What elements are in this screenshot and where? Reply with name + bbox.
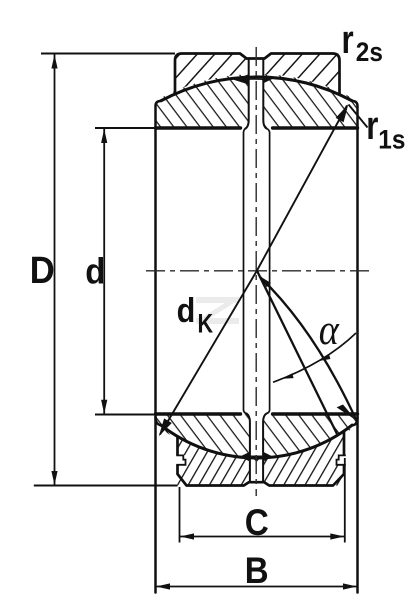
svg-text:d: d (177, 291, 196, 329)
watermark logo (faint) (196, 297, 239, 324)
d arrow up (101, 129, 107, 143)
outer ring, top section hatch (175, 54, 340, 95)
svg-text:r: r (366, 103, 378, 148)
grease groove wedge bottom-left (240, 452, 250, 462)
C dimension line (180, 536, 344, 538)
line B arrow at sphere corner (337, 405, 357, 421)
svg-text:B: B (245, 550, 269, 591)
svg-text:D: D (30, 248, 55, 291)
seal groove notch bottom-left (176, 455, 186, 465)
grease groove wedge bottom-center (251, 456, 263, 463)
svg-text:1s: 1s (378, 126, 405, 155)
bottom face lubrication notch cutout (243, 482, 271, 488)
D arrow up (51, 55, 57, 69)
line B arrow at center (259, 276, 270, 287)
C arrow left (180, 533, 194, 539)
tilt angle line A (257, 271, 338, 436)
svg-text:K: K (198, 309, 214, 339)
lubrication hole walls bottom (247, 414, 267, 482)
sphere surface arc, bottom (161, 425, 352, 458)
d extension line top (95, 127, 156, 129)
seal groove notch bottom-right (336, 455, 346, 465)
lubrication hole top cutout (249, 57, 264, 128)
svg-text:r: r (342, 17, 354, 62)
alpha leader arrow end (283, 373, 294, 379)
vertical centerline (255, 47, 257, 496)
alpha leader arrow mid (320, 354, 331, 361)
top face lubrication notch cutout (240, 52, 271, 59)
lubrication hole bottom cutout (250, 414, 263, 483)
outer ring top outline with notch and r2s corner radii (175, 54, 340, 95)
D extension line top (41, 53, 175, 55)
svg-text:α: α (319, 305, 340, 354)
dK arrow top-right (336, 104, 349, 122)
D dimension line (54, 55, 56, 485)
bore line bottom (156, 412, 358, 415)
inner ring left face line + B extension line left (156, 101, 161, 593)
outer ring, bottom section hatch (178, 431, 345, 486)
B dimension line (156, 586, 357, 588)
tilt angle line B (260, 277, 357, 421)
inner ring bottom r1s corner rounds (156, 417, 358, 425)
alpha leader arc (273, 333, 356, 382)
dK arrow bottom-left (159, 418, 172, 436)
svg-text:2s: 2s (356, 38, 383, 67)
thin arc across bottom hole (246, 457, 266, 459)
dK sphere diameter line (160, 106, 347, 435)
C arrow right (330, 533, 344, 539)
thin arc across top hole (246, 78, 266, 80)
inner ring, bottom section hatch (156, 414, 358, 461)
B arrow right (343, 583, 357, 589)
sphere surface arc, top (161, 77, 352, 101)
D arrow down (51, 471, 57, 485)
grease groove wedge bottom-right (263, 452, 273, 462)
d dimension line (103, 129, 105, 414)
svg-text:d: d (85, 252, 105, 292)
bore lubrication groove lines (244, 129, 270, 414)
outer ring bottom outline with chamfers and notch (178, 431, 345, 486)
inner ring right face line + B extension line right (353, 101, 358, 593)
inner ring, top section hatch (156, 74, 358, 128)
lubrication hole walls top (246, 59, 267, 129)
grease groove wedge top-left (234, 74, 249, 84)
d arrow down (101, 400, 107, 414)
bore line top (156, 126, 358, 129)
C extension line left (179, 487, 181, 543)
grease groove wedge top-right (263, 75, 272, 83)
r1s leader line (349, 105, 368, 128)
C extension line right (344, 458, 346, 543)
d extension line bottom (95, 414, 156, 416)
B arrow left (156, 583, 170, 589)
svg-text:C: C (245, 502, 269, 543)
horizontal centerline (bearing axis) (146, 270, 372, 272)
D extension line bottom (34, 485, 178, 487)
